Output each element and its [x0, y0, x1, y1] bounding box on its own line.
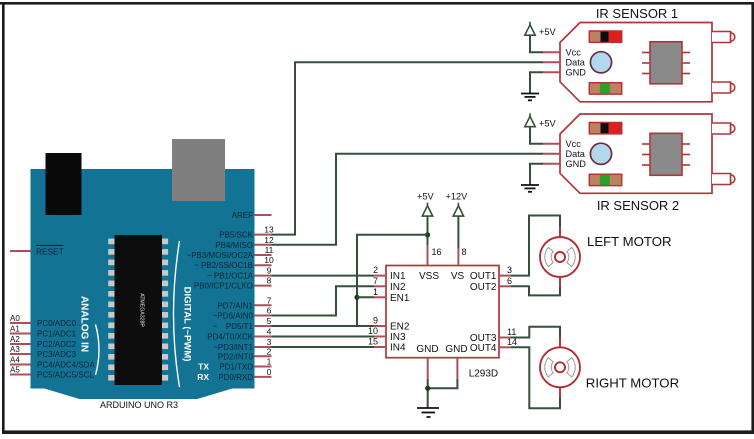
svg-text:PD0/RXD: PD0/RXD	[218, 373, 253, 382]
svg-text:ANALOG IN: ANALOG IN	[79, 296, 90, 352]
svg-text:Vcc: Vcc	[566, 48, 582, 58]
svg-text:PD2/INT0: PD2/INT0	[218, 352, 254, 361]
svg-text:+12V: +12V	[446, 191, 469, 201]
svg-text:OUT2: OUT2	[470, 282, 497, 293]
svg-text:IN4: IN4	[390, 343, 406, 354]
svg-text:2: 2	[267, 346, 272, 356]
svg-text:2: 2	[373, 265, 378, 275]
svg-text:IN3: IN3	[390, 332, 406, 343]
svg-text:12: 12	[264, 235, 274, 245]
svg-text:A2: A2	[10, 335, 20, 344]
svg-text:11: 11	[265, 245, 274, 255]
svg-text:8: 8	[462, 247, 467, 257]
svg-text:LEFT MOTOR: LEFT MOTOR	[587, 234, 672, 249]
svg-text:A0: A0	[10, 314, 20, 323]
svg-text:A1: A1	[10, 324, 20, 333]
svg-text:9: 9	[373, 316, 378, 326]
svg-text:3: 3	[507, 265, 512, 275]
svg-text:PC3/ADC3: PC3/ADC3	[37, 350, 77, 359]
svg-text:IN2: IN2	[390, 282, 406, 293]
svg-text:1: 1	[373, 287, 378, 297]
svg-text:11: 11	[507, 327, 516, 337]
svg-text:PC1/ADC1: PC1/ADC1	[37, 330, 77, 339]
svg-text:EN1: EN1	[390, 293, 410, 304]
svg-text:A5: A5	[10, 365, 20, 374]
svg-text:PC4/ADC4/SDA: PC4/ADC4/SDA	[37, 361, 95, 370]
svg-text:8: 8	[267, 276, 272, 286]
svg-text:GND: GND	[566, 68, 587, 78]
svg-text:IN1: IN1	[390, 271, 406, 282]
svg-text:~PD3/INT1: ~PD3/INT1	[213, 343, 253, 352]
svg-text:PB5/SCK: PB5/SCK	[219, 231, 253, 240]
svg-text:TX: TX	[198, 362, 209, 372]
svg-text:OUT1: OUT1	[470, 271, 497, 282]
svg-text:PD4/T0/XCK: PD4/T0/XCK	[207, 333, 253, 342]
svg-text:GND: GND	[416, 344, 438, 355]
svg-text:PB4/MISO: PB4/MISO	[215, 241, 253, 250]
svg-text:PC2/ADC2: PC2/ADC2	[37, 340, 77, 349]
svg-text:10: 10	[264, 255, 274, 265]
svg-text:DIGITAL (~PWM): DIGITAL (~PWM)	[182, 287, 193, 362]
svg-text:RESET: RESET	[36, 246, 64, 256]
svg-text:13: 13	[264, 225, 274, 235]
svg-text:VSS: VSS	[419, 271, 439, 282]
svg-text:IR SENSOR 2: IR SENSOR 2	[597, 198, 679, 213]
svg-text:Data: Data	[566, 58, 586, 68]
svg-text:7: 7	[267, 295, 272, 305]
svg-text:A4: A4	[10, 355, 20, 364]
svg-text:9: 9	[267, 266, 272, 276]
svg-text:6: 6	[267, 306, 272, 316]
svg-text:~PD6/AIN0: ~PD6/AIN0	[213, 312, 254, 321]
svg-text:VS: VS	[451, 271, 465, 282]
svg-text:PC0/ADC0: PC0/ADC0	[37, 319, 77, 328]
svg-text:PD7/AIN1: PD7/AIN1	[217, 301, 253, 310]
svg-text:5: 5	[267, 316, 272, 326]
svg-text:GND: GND	[445, 344, 467, 355]
svg-text:GND: GND	[566, 159, 587, 169]
svg-text:10: 10	[368, 326, 378, 336]
svg-text:~ PB1/OC1A: ~ PB1/OC1A	[207, 272, 254, 281]
svg-text:AREF: AREF	[232, 211, 253, 220]
svg-text:+5V: +5V	[539, 119, 556, 129]
svg-text:ARDUINO UNO R3: ARDUINO UNO R3	[100, 400, 178, 410]
svg-text:7: 7	[373, 276, 378, 286]
svg-text:A3: A3	[10, 345, 20, 354]
svg-text:RIGHT MOTOR: RIGHT MOTOR	[586, 376, 679, 391]
svg-text:1: 1	[267, 357, 272, 367]
svg-text:RX: RX	[197, 372, 209, 382]
svg-text:0: 0	[267, 367, 272, 377]
svg-text:OUT4: OUT4	[470, 343, 497, 354]
svg-text:ATMEGA328P: ATMEGA328P	[139, 293, 145, 327]
svg-text:Data: Data	[566, 149, 586, 159]
svg-text:L293D: L293D	[469, 369, 498, 380]
svg-text:+5V: +5V	[539, 27, 556, 37]
svg-text:~ PB2/SS/OC1B: ~ PB2/SS/OC1B	[194, 261, 253, 270]
svg-text:~ PD5/T1: ~ PD5/T1	[212, 322, 253, 331]
svg-text:6: 6	[507, 276, 512, 286]
svg-text:Vcc: Vcc	[566, 139, 582, 149]
svg-text:~PB3/MOSI/OC2A: ~PB3/MOSI/OC2A	[187, 251, 254, 260]
svg-text:PD1/TXD: PD1/TXD	[219, 363, 253, 372]
svg-text:16: 16	[432, 247, 442, 257]
svg-text:4: 4	[267, 327, 272, 337]
svg-text:+5V: +5V	[417, 191, 434, 201]
svg-text:IR SENSOR 1: IR SENSOR 1	[596, 6, 678, 21]
svg-text:EN2: EN2	[390, 322, 410, 333]
svg-text:15: 15	[368, 337, 378, 347]
svg-text:PC5/ADC5/SCL: PC5/ADC5/SCL	[37, 371, 94, 380]
svg-text:PB0/ICP1/CLKO: PB0/ICP1/CLKO	[194, 282, 253, 291]
